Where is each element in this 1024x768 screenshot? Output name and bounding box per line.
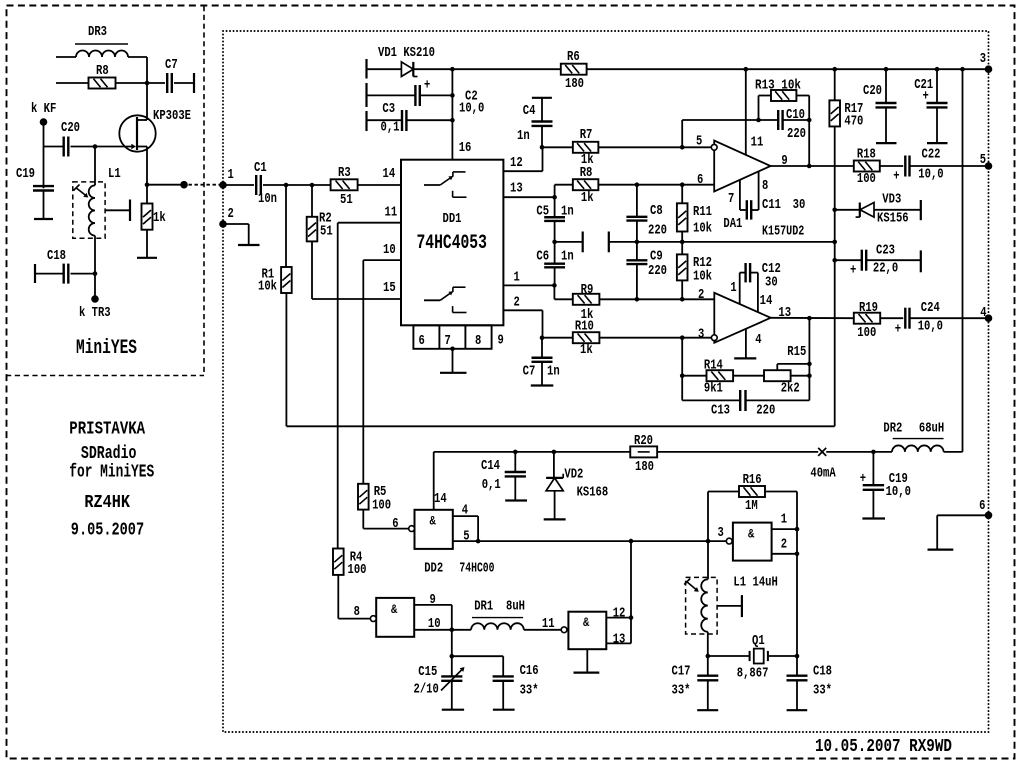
ground bar under 1k	[137, 257, 157, 259]
svg-text:+: +	[895, 322, 901, 338]
svg-text:8: 8	[762, 178, 768, 194]
svg-text:9: 9	[498, 333, 504, 349]
resistor R4 100	[333, 549, 344, 575]
capacitor C7 1n (main)	[541, 338, 543, 358]
junction R13/C10 left	[756, 118, 761, 123]
capacitor C4 1n	[532, 97, 552, 99]
diode VD1 KS210	[367, 68, 402, 70]
resistor R1 10k	[285, 185, 287, 267]
resistor R6 180	[561, 64, 587, 75]
junction R7/opamp pin5	[680, 145, 685, 150]
node 2	[219, 220, 227, 228]
svg-text:8uH: 8uH	[506, 599, 525, 615]
svg-text:4: 4	[462, 503, 468, 519]
svg-text:R13 10k: R13 10k	[755, 78, 801, 94]
svg-text:RZ4HK: RZ4HK	[84, 493, 130, 513]
svg-text:1n: 1n	[517, 128, 530, 144]
svg-text:R8: R8	[96, 63, 109, 79]
svg-text:SDRadio: SDRadio	[81, 444, 137, 464]
svg-text:9: 9	[781, 153, 787, 169]
capacitor C1 10n	[255, 175, 257, 195]
junction pin12 feedback	[629, 615, 634, 620]
gate DD2.2	[376, 598, 414, 637]
capacitor C18 33* (main)	[796, 656, 798, 675]
junction C4/R7/pin12	[540, 145, 545, 150]
svg-text:C6: C6	[536, 249, 549, 265]
svg-text:+: +	[923, 88, 929, 104]
svg-text:DA1: DA1	[723, 216, 742, 232]
svg-text:R19: R19	[859, 300, 878, 316]
diode VD3 KS156 zener	[832, 208, 837, 213]
capacitor C7 (MiniYES)	[147, 82, 165, 84]
svg-text:10k: 10k	[258, 279, 277, 295]
svg-text:2k2: 2k2	[781, 381, 800, 397]
gate3 pin 11 input	[561, 627, 567, 633]
supply column right	[960, 67, 965, 72]
svg-text:1n: 1n	[561, 249, 574, 265]
svg-text:220: 220	[787, 126, 806, 142]
junction R2 tap	[310, 183, 315, 188]
capacitor C23 22,0 electrolytic	[832, 258, 837, 263]
svg-text:9: 9	[430, 592, 436, 608]
junction pin13/R8/C5	[554, 185, 556, 198]
svg-text:100: 100	[372, 498, 391, 514]
wire drain column	[146, 57, 148, 120]
wire DD1 pin 11	[338, 222, 401, 224]
svg-text:R18: R18	[857, 147, 876, 163]
resistor R18 100	[854, 161, 880, 172]
gate1 pin 6 input	[409, 526, 415, 532]
svg-text:14: 14	[383, 166, 396, 182]
svg-text:470: 470	[844, 113, 863, 129]
svg-text:5: 5	[980, 152, 986, 168]
svg-text:3: 3	[718, 525, 724, 541]
junction C15 row	[450, 654, 455, 659]
gate2 pins 9/10 loop	[414, 604, 452, 606]
R20 supply row	[434, 451, 631, 453]
svg-text:C19: C19	[16, 166, 35, 182]
svg-text:0,1: 0,1	[482, 477, 501, 493]
junction Q1/C18	[795, 654, 800, 659]
svg-text:33*: 33*	[520, 683, 539, 699]
junction R16 column	[706, 539, 711, 544]
inductor DR2 68uH	[873, 451, 892, 453]
capacitor C15 2/10 variable	[451, 656, 453, 676]
MiniYES block border (dashed)	[203, 6, 205, 376]
svg-text:C7: C7	[165, 57, 178, 73]
svg-text:+: +	[850, 262, 856, 278]
capacitor C24 10,0 electrolytic	[904, 308, 906, 329]
capacitor C12 30	[740, 272, 746, 274]
svg-text:74HC4053: 74HC4053	[417, 232, 487, 255]
svg-text:10,0: 10,0	[918, 319, 943, 335]
svg-text:22,0: 22,0	[873, 260, 898, 276]
junction pin10/DR1	[450, 628, 455, 633]
svg-text:KP303E: KP303E	[153, 108, 191, 124]
svg-text:1M: 1M	[745, 498, 758, 514]
svg-text:R11: R11	[693, 204, 712, 220]
resistor R8 1k	[555, 184, 573, 186]
DD1 pin 12 wire	[503, 170, 542, 172]
gate4 pin 1 wire	[772, 528, 797, 530]
svg-text:1: 1	[781, 511, 787, 527]
capacitor C20	[884, 67, 889, 72]
svg-text:11: 11	[751, 135, 764, 151]
svg-text:MiniYES: MiniYES	[76, 337, 137, 360]
capacitor C8 220	[635, 182, 640, 187]
svg-text:100: 100	[348, 562, 367, 578]
gate3 ground	[586, 649, 588, 672]
inductor L1 14uH (tunable)	[686, 577, 718, 634]
svg-text:100: 100	[857, 325, 876, 341]
junction R11/R12	[680, 240, 685, 245]
svg-text:74HC00: 74HC00	[459, 561, 494, 577]
svg-text:+: +	[893, 169, 899, 185]
capacitor C19 10,0 electrolytic (main)	[872, 452, 874, 485]
svg-text:14: 14	[760, 293, 773, 309]
svg-text:1: 1	[514, 270, 520, 286]
svg-text:100: 100	[857, 171, 876, 187]
capacitor C20 (MiniYES)	[63, 137, 65, 157]
svg-text:C20: C20	[61, 120, 80, 136]
svg-text:33*: 33*	[813, 682, 832, 698]
svg-text:3: 3	[980, 51, 986, 67]
svg-text:4: 4	[755, 332, 761, 348]
junction C5/C6/terminal	[552, 240, 557, 245]
svg-text:15: 15	[383, 280, 396, 296]
capacitor C18 (MiniYES)	[34, 264, 36, 283]
svg-text:R20: R20	[634, 433, 653, 449]
svg-text:10k: 10k	[693, 221, 712, 237]
node 3	[985, 65, 993, 73]
L1 core tap terminal (main)	[717, 605, 742, 607]
svg-text:R8: R8	[580, 165, 593, 181]
svg-text:R9: R9	[581, 282, 594, 298]
svg-text:1k: 1k	[153, 210, 166, 226]
svg-text:DR3: DR3	[88, 24, 107, 40]
junction middle row / R17 column	[832, 240, 837, 245]
feedback wire pin5 to C10 row	[681, 120, 683, 147]
svg-text:5: 5	[463, 529, 469, 545]
resistor R12 10k	[681, 242, 683, 255]
svg-text:DD1: DD1	[443, 211, 462, 227]
main circuit block border (dotted)	[223, 31, 989, 732]
svg-text:C17: C17	[672, 664, 691, 680]
svg-text:11: 11	[385, 205, 398, 221]
output wire to node 1	[147, 184, 184, 186]
gate DD2.1	[415, 510, 453, 549]
wire k KF to C20	[43, 122, 45, 147]
node 4	[985, 314, 993, 322]
svg-text:51: 51	[340, 192, 353, 208]
svg-text:10,0: 10,0	[918, 167, 943, 183]
svg-text:VD3: VD3	[882, 192, 901, 208]
junction VD1/rail	[450, 67, 455, 72]
svg-text:51: 51	[320, 223, 333, 239]
wire gate1 to gate4	[478, 540, 726, 542]
capacitor C21 electrolytic	[935, 67, 940, 72]
R15 wiper tap	[776, 364, 778, 370]
svg-text:68uH: 68uH	[919, 421, 944, 437]
resistor R7 1k	[542, 146, 573, 148]
svg-text:C14: C14	[481, 458, 500, 474]
svg-text:for MiniYES: for MiniYES	[69, 463, 154, 483]
junction C2/pin16 column	[450, 93, 455, 98]
capacitor C14 0,1	[513, 450, 518, 455]
crystal Q1 8,867	[708, 655, 750, 657]
inductor DR1 8uH	[452, 629, 471, 631]
svg-text:10n: 10n	[258, 191, 277, 207]
svg-text:12: 12	[613, 605, 626, 621]
ground at node 2	[223, 223, 249, 225]
svg-text:Q1: Q1	[752, 633, 765, 649]
svg-text:C1: C1	[254, 160, 267, 176]
svg-text:R6: R6	[567, 49, 580, 65]
opamp1 pin 5 input bubble	[711, 144, 717, 150]
svg-text:11: 11	[542, 616, 555, 632]
svg-text:DR1: DR1	[474, 599, 493, 615]
node k TR3	[94, 274, 96, 299]
node 6 with ground	[985, 512, 993, 520]
svg-text:C18: C18	[813, 664, 832, 680]
svg-text:6: 6	[979, 498, 985, 514]
svg-text:C10: C10	[786, 107, 805, 123]
capacitor C5 1n	[554, 197, 556, 217]
svg-text:1n: 1n	[547, 364, 560, 380]
resistor R11 10k	[680, 182, 685, 187]
junction C9/R9 row	[635, 297, 640, 302]
gate2 pin 8 input	[338, 618, 370, 620]
svg-text:C4: C4	[523, 103, 536, 119]
svg-text:C13: C13	[711, 403, 730, 419]
DD1 pin 16 wire	[451, 69, 453, 160]
wire middle junction row	[637, 241, 835, 243]
resistor R15 2k2 (trimmer body)	[764, 370, 791, 381]
resistor R20 180	[630, 446, 657, 457]
opamp1 pin 11 supply wire	[744, 67, 749, 72]
svg-text:6: 6	[392, 516, 398, 532]
junction C6/pin1/R9	[552, 283, 557, 288]
DD1 pin 2 wire	[503, 309, 542, 311]
svg-text:6: 6	[419, 333, 425, 349]
gate4 pin 2 wire	[772, 553, 797, 555]
opamp1 output pin 9 wire	[771, 165, 854, 167]
junction C20/L1	[93, 144, 98, 149]
svg-text:L1: L1	[733, 575, 746, 591]
resistor R5 100	[358, 484, 369, 510]
svg-text:8: 8	[475, 333, 481, 349]
svg-text:8,867: 8,867	[737, 665, 769, 681]
opamp1 pin 8 wire	[758, 171, 760, 210]
svg-text:10,0: 10,0	[459, 101, 484, 117]
svg-text:2: 2	[228, 206, 234, 222]
svg-text:9.05.2007: 9.05.2007	[71, 521, 144, 541]
transistor KP303E	[119, 115, 155, 151]
capacitor C10 220	[759, 119, 779, 121]
svg-text:C24: C24	[921, 300, 940, 316]
svg-text:PRISTAVKA: PRISTAVKA	[69, 420, 145, 440]
capacitor C11 30	[740, 209, 747, 211]
svg-text:C15: C15	[418, 664, 437, 680]
resistor R3 51	[331, 179, 358, 190]
svg-text:L1: L1	[108, 166, 121, 182]
gate DD2.4	[733, 523, 772, 561]
resistor R17 470	[832, 67, 837, 72]
diode VD2 KS168 zener	[552, 450, 557, 455]
svg-text:180: 180	[565, 76, 584, 92]
IC DD1 74HC4053 body	[401, 160, 503, 326]
opamp2 pin 4 ground	[745, 329, 747, 359]
junction C3/pin16 column	[450, 118, 455, 123]
svg-text:14: 14	[434, 491, 447, 507]
svg-text:C8: C8	[650, 203, 663, 219]
svg-text:+: +	[860, 471, 866, 487]
svg-text:R7: R7	[580, 127, 593, 143]
svg-text:13: 13	[613, 632, 626, 648]
svg-text:&: &	[748, 527, 754, 542]
svg-text:k TR3: k TR3	[79, 305, 111, 321]
supply input terminal bars	[365, 59, 367, 79]
svg-text:40mA: 40mA	[810, 466, 836, 482]
capacitor C2 10,0 electrolytic	[367, 94, 416, 96]
junction C18/L1	[93, 271, 98, 276]
svg-text:0,1: 0,1	[381, 120, 400, 136]
svg-text:220: 220	[648, 223, 667, 239]
junction pin5	[476, 539, 481, 544]
opamp2 output pin 13 wire	[771, 317, 854, 319]
svg-text:1: 1	[730, 280, 736, 296]
svg-text:C16: C16	[520, 663, 539, 679]
opamp2 pin 14 wire	[757, 273, 759, 313]
svg-text:R14: R14	[704, 357, 723, 373]
feedback column to pin 9	[808, 96, 810, 167]
svg-text:2: 2	[514, 295, 520, 311]
capacitor C22 10,0 electrolytic	[904, 156, 906, 177]
DD1 ground	[450, 347, 455, 352]
gate3 pins 12/13 loop	[606, 617, 631, 619]
svg-text:8: 8	[354, 604, 360, 620]
svg-text:30: 30	[793, 197, 806, 213]
DD1 pin 1 wire	[503, 284, 554, 286]
svg-text:2: 2	[698, 287, 704, 303]
svg-text:2: 2	[781, 537, 787, 553]
gate wire with arrow	[95, 146, 133, 148]
capacitor C3 0,1	[367, 119, 403, 121]
svg-text:KS156: KS156	[877, 210, 909, 226]
svg-text:13: 13	[778, 305, 791, 321]
junction L1/C17/Q1	[706, 654, 711, 659]
node 1	[219, 181, 227, 189]
svg-text:5: 5	[696, 134, 702, 150]
junction output/feedback	[807, 164, 812, 169]
svg-text:10.05.2007 RX9WD: 10.05.2007 RX9WD	[815, 736, 952, 757]
op-amp DA1 unit 2	[714, 293, 770, 343]
svg-text:7: 7	[728, 191, 734, 207]
svg-text:VD2: VD2	[564, 466, 583, 482]
DD1 pin 13 wire	[503, 196, 554, 198]
svg-text:1n: 1n	[561, 204, 574, 220]
svg-text:6: 6	[697, 172, 703, 188]
svg-text:DR2: DR2	[883, 421, 902, 437]
resistor R2 51	[311, 185, 313, 217]
resistor R14 9k1	[680, 373, 685, 378]
svg-text:7: 7	[445, 333, 451, 349]
supply rail wire	[452, 68, 560, 70]
svg-text:30: 30	[765, 274, 778, 290]
DD1 switch upper	[424, 184, 440, 186]
terminal pair in middle	[555, 241, 583, 243]
junction C10 right	[807, 118, 812, 123]
svg-text:13: 13	[510, 181, 523, 197]
junction C8/C9	[635, 240, 640, 245]
svg-text:C11: C11	[762, 197, 781, 213]
svg-text:C20: C20	[863, 83, 882, 99]
svg-text:1k: 1k	[581, 190, 594, 206]
svg-text:+: +	[424, 78, 430, 94]
capacitor C17 33*	[707, 656, 709, 675]
wire DD1 pin 15	[312, 298, 401, 300]
current break X 40mA	[818, 448, 826, 456]
opamp2 pin 1 wire	[739, 273, 741, 305]
opamp1 pin 5 input wire	[682, 146, 711, 148]
svg-text:R15: R15	[787, 344, 806, 360]
L1 core tap terminal	[105, 209, 130, 211]
svg-text:9k1: 9k1	[704, 381, 723, 397]
svg-text:10: 10	[383, 242, 396, 258]
gate4 pin 3 input	[726, 538, 732, 544]
opamp1 pin 7 wire	[739, 180, 741, 210]
svg-text:&: &	[391, 602, 397, 617]
junction R9/R12/opamp pin2	[680, 297, 685, 302]
svg-text:C22: C22	[922, 147, 941, 163]
svg-text:10: 10	[428, 616, 441, 632]
long bottom bus wire	[286, 425, 834, 427]
svg-text:VD1 KS210: VD1 KS210	[378, 45, 435, 61]
svg-text:C7: C7	[523, 364, 536, 380]
svg-text:1k: 1k	[580, 342, 593, 358]
resistor R8 (MiniYES)	[56, 82, 89, 84]
svg-text:&: &	[430, 514, 436, 529]
svg-text:16: 16	[459, 140, 472, 156]
capacitor C19 (MiniYES)	[43, 147, 45, 189]
wire node1 to C1	[223, 184, 254, 186]
svg-text:2/10: 2/10	[414, 682, 439, 698]
DD1 switch lower	[424, 299, 440, 301]
svg-text:&: &	[583, 615, 589, 630]
svg-text:10k: 10k	[693, 268, 712, 284]
svg-text:k KF: k KF	[31, 101, 56, 117]
gate1 pins 4/5 loop	[453, 515, 478, 517]
svg-text:33*: 33*	[672, 682, 691, 698]
svg-text:R10: R10	[575, 319, 594, 335]
gate3 feedback column	[630, 541, 632, 618]
feedback column 2	[808, 318, 810, 400]
capacitor C13 220	[682, 399, 740, 401]
inductor L1 (MiniYES, tunable)	[73, 182, 105, 238]
svg-text:KS168: KS168	[577, 485, 609, 501]
svg-text:DD2: DD2	[424, 561, 443, 577]
op-amp DA1 unit 1	[714, 141, 770, 192]
node 5	[985, 162, 993, 170]
svg-text:10,0: 10,0	[886, 484, 911, 500]
gate1 pin 14 wire	[433, 452, 435, 510]
junction R10/feedback column	[680, 335, 685, 340]
svg-text:C3: C3	[382, 101, 395, 117]
capacitor C16 33*	[452, 655, 503, 657]
svg-text:3: 3	[698, 326, 704, 342]
svg-text:C18: C18	[47, 248, 66, 264]
gate DD2.3	[568, 612, 606, 650]
